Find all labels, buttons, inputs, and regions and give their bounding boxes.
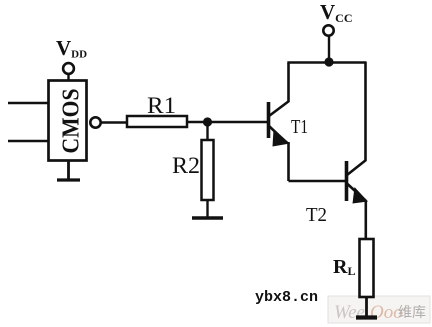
- wire CMOS to ground: [67, 161, 70, 180]
- resistor R1: [127, 116, 187, 127]
- svg-text:R2: R2: [172, 153, 200, 178]
- watermark box: [328, 296, 430, 323]
- wire to T2 base: [289, 180, 346, 183]
- svg-text:T1: T1: [291, 116, 308, 138]
- top wire: [287, 61, 366, 64]
- resistor RL: [360, 239, 374, 297]
- output bubble: [90, 117, 100, 127]
- ground CMOS: [57, 178, 80, 181]
- wire junction to Vcc terminal: [328, 37, 330, 63]
- wire top to T2 collector: [364, 62, 367, 161]
- wire R2 to ground: [206, 200, 208, 218]
- transistor T2: [347, 160, 369, 204]
- wire VDD to CMOS: [67, 75, 69, 81]
- wire T1 collector up: [287, 63, 290, 102]
- terminal Vcc: [323, 25, 333, 35]
- wire T1 emitter down: [287, 142, 290, 181]
- input wire B: [8, 140, 48, 142]
- transistor T1: [269, 101, 291, 147]
- node junction dot: [203, 117, 212, 126]
- svg-text:CMOS: CMOS: [59, 89, 85, 154]
- terminal VDD: [63, 63, 74, 74]
- ground R2: [192, 216, 223, 219]
- svg-text:RL: RL: [333, 256, 355, 278]
- svg-text:ybx8.cn: ybx8.cn: [255, 289, 318, 306]
- svg-text:VDD: VDD: [56, 36, 87, 61]
- wire T2 emitter down: [364, 200, 367, 239]
- svg-text:VCC: VCC: [320, 0, 353, 25]
- resistor R2: [202, 140, 214, 200]
- input wire A: [8, 102, 48, 104]
- CMOS gate U1: [49, 81, 87, 161]
- wire R1 to T1 base: [187, 121, 267, 123]
- wire node to R2: [206, 122, 208, 140]
- junction dot Vcc: [324, 57, 333, 66]
- svg-text:Wee: Wee: [334, 302, 365, 323]
- wire bubble to R1: [101, 121, 127, 123]
- svg-text:T2: T2: [306, 204, 327, 226]
- svg-text:R1: R1: [147, 93, 176, 118]
- ground RL: [356, 315, 377, 319]
- wire RL to ground: [365, 297, 368, 316]
- svg-text:维库: 维库: [398, 304, 426, 320]
